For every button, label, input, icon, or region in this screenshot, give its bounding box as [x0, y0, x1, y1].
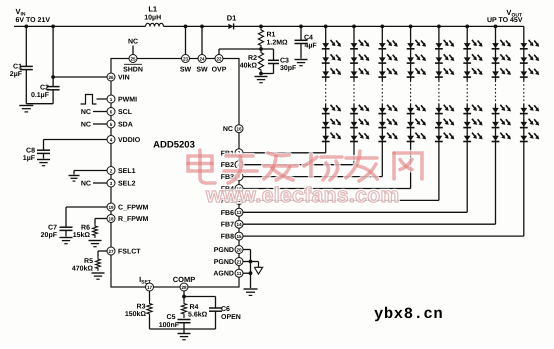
svg-text:27: 27: [108, 249, 114, 254]
svg-text:470kΩ: 470kΩ: [72, 265, 94, 273]
svg-text:13: 13: [236, 210, 242, 215]
svg-text:SEL1: SEL1: [118, 168, 136, 175]
svg-text:www.elecfans.com: www.elecfans.com: [205, 184, 400, 207]
svg-text:C_FPWM: C_FPWM: [118, 205, 149, 212]
svg-text:SW: SW: [180, 67, 192, 74]
svg-text:R_FPWM: R_FPWM: [118, 216, 149, 223]
svg-text:16: 16: [236, 127, 242, 132]
svg-text:UP TO 45V: UP TO 45V: [487, 17, 523, 24]
svg-text:100nF: 100nF: [159, 322, 180, 329]
svg-text:R6: R6: [81, 225, 90, 232]
svg-text:PWMI: PWMI: [118, 97, 137, 104]
svg-text:ybx8.cn: ybx8.cn: [374, 305, 443, 323]
svg-text:C2: C2: [40, 85, 49, 92]
svg-text:PGND: PGND: [214, 247, 234, 254]
svg-text:30pF: 30pF: [280, 65, 297, 72]
svg-text:21: 21: [236, 259, 242, 264]
svg-text:150kΩ: 150kΩ: [125, 310, 147, 318]
svg-text:ADD5203: ADD5203: [153, 140, 195, 151]
svg-text:5.6kΩ: 5.6kΩ: [188, 311, 208, 319]
svg-text:NC: NC: [81, 109, 91, 116]
svg-text:6: 6: [110, 109, 113, 114]
svg-text:11: 11: [237, 271, 242, 276]
svg-text:VDDIO: VDDIO: [118, 137, 141, 144]
svg-text:SCL: SCL: [118, 109, 133, 116]
svg-text:20: 20: [236, 247, 242, 252]
svg-text:2µF: 2µF: [10, 71, 23, 78]
svg-text:FB8: FB8: [221, 234, 234, 241]
svg-text:SDA: SDA: [118, 122, 133, 129]
svg-text:14: 14: [236, 222, 242, 227]
svg-text:C8: C8: [26, 148, 35, 155]
svg-text:SHDN: SHDN: [123, 67, 143, 74]
svg-text:D1: D1: [227, 14, 237, 23]
svg-text:4µF: 4µF: [305, 43, 318, 50]
svg-text:4: 4: [110, 137, 113, 142]
svg-text:C3: C3: [280, 58, 289, 65]
svg-text:20pF: 20pF: [41, 232, 58, 239]
svg-text:5: 5: [110, 122, 113, 127]
svg-text:15kΩ: 15kΩ: [73, 231, 91, 239]
svg-text:VIN: VIN: [118, 75, 130, 82]
svg-text:1µF: 1µF: [23, 155, 36, 162]
svg-text:OPEN: OPEN: [221, 314, 241, 321]
svg-text:NC: NC: [223, 126, 233, 133]
svg-text:1: 1: [110, 97, 113, 102]
svg-text:C4: C4: [304, 35, 313, 42]
svg-text:L1: L1: [148, 5, 157, 14]
svg-text:R2: R2: [248, 55, 257, 62]
svg-text:28: 28: [181, 285, 187, 290]
svg-text:C5: C5: [167, 314, 176, 321]
svg-text:FSLCT: FSLCT: [118, 249, 141, 256]
svg-text:R5: R5: [84, 258, 93, 265]
svg-text:NC: NC: [128, 39, 138, 46]
svg-text:19: 19: [108, 205, 114, 210]
svg-text:17: 17: [147, 285, 153, 290]
svg-text:26: 26: [108, 75, 114, 80]
svg-text:0.1µF: 0.1µF: [31, 92, 50, 99]
svg-text:PGND: PGND: [214, 259, 234, 266]
svg-text:18: 18: [108, 216, 114, 221]
svg-text:FB7: FB7: [221, 222, 234, 229]
svg-text:R4: R4: [190, 304, 199, 311]
svg-text:2: 2: [110, 168, 113, 173]
svg-text:AGND: AGND: [213, 271, 234, 278]
svg-text:23: 23: [183, 56, 189, 61]
svg-text:FB6: FB6: [221, 210, 234, 217]
svg-text:C1: C1: [13, 64, 22, 71]
svg-text:6V TO 21V: 6V TO 21V: [16, 17, 51, 24]
svg-text:1.2MΩ: 1.2MΩ: [267, 40, 289, 47]
svg-text:SW: SW: [196, 67, 208, 74]
svg-text:3: 3: [110, 181, 113, 186]
svg-text:NC: NC: [81, 181, 91, 188]
svg-text:40kΩ: 40kΩ: [240, 62, 258, 70]
svg-text:COMP: COMP: [173, 275, 196, 284]
svg-text:22: 22: [216, 56, 222, 61]
svg-text:C6: C6: [221, 306, 230, 313]
svg-text:25: 25: [130, 56, 136, 61]
svg-text:R3: R3: [137, 304, 146, 311]
svg-text:NC: NC: [81, 122, 91, 129]
svg-text:10µH: 10µH: [144, 15, 161, 22]
svg-text:24: 24: [199, 56, 205, 61]
svg-text:15: 15: [236, 234, 242, 239]
svg-text:SEL2: SEL2: [118, 181, 136, 188]
svg-text:OVP: OVP: [212, 67, 227, 74]
svg-text:C7: C7: [48, 225, 57, 232]
svg-text:R1: R1: [267, 32, 276, 39]
